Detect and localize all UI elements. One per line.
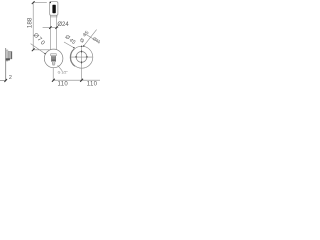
right label 3 [92,36,102,45]
left profile dim tick [4,79,7,82]
right leader 2 [83,30,96,47]
left profile view: body knob [8,52,12,59]
crosshair vertical + extension to dim line [81,46,83,80]
handle cap [50,2,58,16]
G1/2 leader [58,65,63,71]
left profile view: dark inlet stub [6,58,10,60]
svg-text:188: 188 [27,17,34,28]
top dot [81,46,82,47]
188 dim: top extension line [33,2,47,4]
svg-text:Ø24: Ø24 [57,22,69,28]
bottom dim line [53,79,100,81]
bottom dim mid tick [80,79,83,82]
black lever bar [52,5,55,13]
right label 1 [63,34,76,46]
middle circle extension to dim line [52,68,54,80]
O24 arrows [49,26,51,29]
188 dim: top tick [32,1,35,4]
pipe left edge [49,15,51,54]
svg-text:110: 110 [87,82,98,88]
right label 2 [79,30,91,45]
O70 leader line [31,44,46,54]
right view outer circle darker left arc [70,49,75,67]
inner circle tick marks [81,51,83,53]
svg-text:110: 110 [58,82,69,88]
aerator ladder [51,56,55,62]
escutcheon circle front view [44,49,63,68]
left profile view: escutcheon plate edge-on [6,50,8,61]
O24 dim line [43,27,59,29]
cap bottom joint lines [50,14,58,16]
svg-text:2: 2 [9,75,12,81]
left profile view: wall line [5,48,7,81]
right view inner circle [76,52,87,63]
crosshair horizontal [71,56,92,58]
pipe right edge [56,15,58,54]
left profile dim line [0,79,6,81]
O70 text [32,32,46,47]
cap corner dot [50,2,52,4]
pipe into circle [50,53,56,55]
right view outer circle [71,46,93,68]
188 dim: bottom tick [32,48,35,51]
svg-text:G 1/2”: G 1/2” [58,71,69,75]
aerator collar [51,54,57,56]
188 dim: bottom extension line [33,49,50,51]
aerator tip [52,62,55,64]
right leader 3 [84,33,99,42]
bottom dim left tick [52,79,55,82]
right leader 1 [64,42,74,48]
188 dim: vertical line [32,3,34,50]
